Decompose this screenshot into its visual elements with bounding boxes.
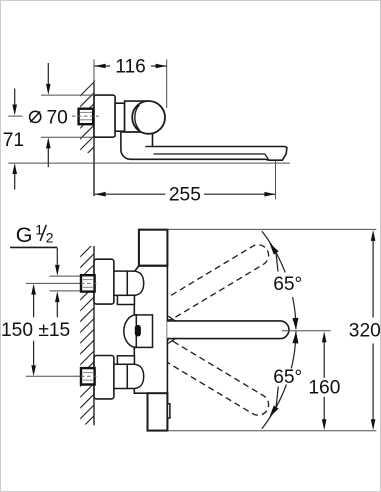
svg-text:255: 255 [169, 185, 201, 206]
svg-text:70: 70 [47, 107, 68, 128]
svg-text:116: 116 [115, 57, 146, 78]
svg-text:65°: 65° [273, 274, 302, 295]
svg-text:65°: 65° [273, 367, 302, 388]
svg-text:71: 71 [3, 130, 24, 151]
svg-text:320: 320 [349, 321, 381, 342]
svg-text:150 ±15: 150 ±15 [1, 320, 70, 341]
svg-text:2: 2 [46, 230, 54, 246]
svg-text:G: G [16, 223, 33, 247]
svg-text:160: 160 [308, 377, 340, 398]
